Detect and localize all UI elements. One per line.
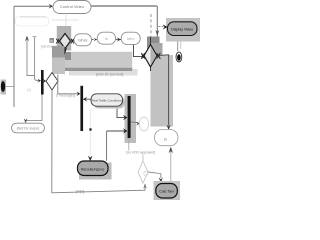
- decision D2: [144, 45, 157, 68]
- Calc Taxi shadow: [154, 181, 181, 200]
- svg-text:(Not for loops): (Not for loops): [17, 127, 40, 131]
- wire: B3 bottom drop: [128, 138, 130, 151]
- wire: Init v drop to decision D2: [134, 45, 144, 57]
- wire: dashed drop x=151: [150, 14, 152, 37]
- dark patch at left top of big box: [61, 52, 71, 60]
- wire: B1 bottom to Not-for-loops box: [26, 95, 42, 121]
- wire: D1 to Init Var: [71, 40, 75, 42]
- decision D1 shadow: [57, 26, 71, 51]
- big gray action shadow strip: [69, 69, 138, 76]
- wire: into D2 left arrowhead: [141, 53, 145, 59]
- svg-text:ts: ts: [164, 137, 167, 141]
- svg-text:m: m: [50, 39, 53, 43]
- wire: D1 bottom into big box: [64, 49, 66, 52]
- wire: D2 right out: [157, 55, 169, 126]
- decision D1: [60, 34, 71, 49]
- action Control Video: [53, 1, 91, 14]
- wire: Control Video to far right: [91, 5, 157, 7]
- svg-text:Control Video: Control Video: [60, 4, 85, 9]
- wire: left riser x=14: [13, 6, 15, 107]
- action Filter Traffic Conditions shadow: [94, 96, 125, 109]
- action Not-for-loops: [12, 123, 45, 133]
- initial node (filled oval): [1, 81, 5, 92]
- svg-text:[no VOD approved]: [no VOD approved]: [126, 150, 155, 154]
- svg-text:[t messages]: [t messages]: [56, 94, 75, 98]
- wire: into D1 left: [56, 38, 60, 44]
- ghost diamond (bottom middle): [138, 161, 148, 183]
- action Calc Taxi: [156, 184, 178, 199]
- initial node shadow: [1, 80, 6, 95]
- svg-text:[sub.ID parsed]: [sub.ID parsed]: [96, 72, 123, 77]
- svg-text:Display Video: Display Video: [171, 28, 193, 32]
- wire: top run into Control Video: [14, 5, 50, 7]
- svg-text:Init v: Init v: [127, 37, 135, 41]
- wire: B3 out right into ghost oval: [131, 122, 139, 123]
- wire: Display Video down to final: [177, 42, 179, 52]
- svg-text:[w|w]: [w|w]: [76, 190, 84, 194]
- wire: Filter down-right into join B3: [117, 109, 125, 118]
- decision D3 (left): [46, 73, 58, 91]
- sync bar B2: [80, 86, 83, 131]
- svg-text:Reroute/reproc: Reroute/reproc: [81, 167, 105, 171]
- wire: D2 bottom stub: [150, 67, 152, 71]
- wire: Control Video down to decision D1: [65, 14, 67, 31]
- action Yes box: [155, 130, 179, 146]
- ghost line right of ghost box: [52, 19, 79, 21]
- tall gray column: [151, 55, 174, 127]
- action Reroute shadow: [79, 163, 112, 180]
- action Filter Traffic Conditions: [91, 94, 123, 106]
- guard label left of D1: [49, 38, 54, 43]
- action In: [97, 32, 115, 44]
- wire: into ghost diamond top: [142, 155, 144, 162]
- wire: ghost diamond right to Calc Taxi: [148, 172, 161, 178]
- decision D2 dark shadow block: [147, 37, 160, 51]
- wire: In to Init v: [116, 39, 121, 41]
- wire: into D3 left: [43, 79, 46, 84]
- svg-text:In: In: [105, 37, 108, 41]
- wire: dashed Init Var to In: [92, 39, 97, 41]
- svg-text:Calc Taxi: Calc Taxi: [159, 190, 174, 194]
- wire: arrow into Reroute top left: [88, 156, 92, 161]
- sync bar B1 (left): [41, 70, 44, 95]
- ghost oval right of B3: [139, 117, 148, 131]
- action Reroute: [78, 161, 109, 176]
- wire: long loop from D3 bottom: [52, 90, 145, 193]
- Display Video shadow: [166, 18, 200, 42]
- gray patch left of big box: [52, 46, 65, 58]
- wire: B2 to Filter box: [83, 98, 91, 100]
- action Init Var: [74, 34, 92, 46]
- wire: big box bottom to sync bar B2: [58, 75, 78, 94]
- big gray action box: [65, 52, 132, 69]
- svg-text:[x]: [x]: [28, 88, 31, 92]
- wire: initial node to left riser: [5, 86, 14, 88]
- wire: B1 up-left feeder with up arrow: [27, 40, 35, 76]
- wire: B1 second feeder: [33, 36, 37, 38]
- wire: y=131 feeder into join B3: [107, 130, 126, 132]
- wire: dashed into Display Video: [159, 26, 165, 28]
- wire: Calc Taxi up to Yes box: [170, 150, 172, 183]
- action Display Video: [168, 22, 198, 36]
- wire: Filter to Reroute faint left drop: [89, 110, 91, 157]
- wire: drop at x=157.5: [156, 6, 158, 42]
- svg-text:Real Traffic Conditions: Real Traffic Conditions: [92, 98, 123, 102]
- final node: [176, 52, 182, 62]
- svg-text:InitVar: InitVar: [78, 38, 89, 42]
- wire: into D2 top: [150, 37, 152, 44]
- join bar B3: [128, 96, 131, 138]
- wire: drop to Reroute right arrow: [106, 131, 108, 161]
- action Init v: [121, 32, 140, 44]
- join bar B3 shadow column: [125, 94, 137, 143]
- ghost box (faded rounded rect, top-left): [15, 17, 49, 27]
